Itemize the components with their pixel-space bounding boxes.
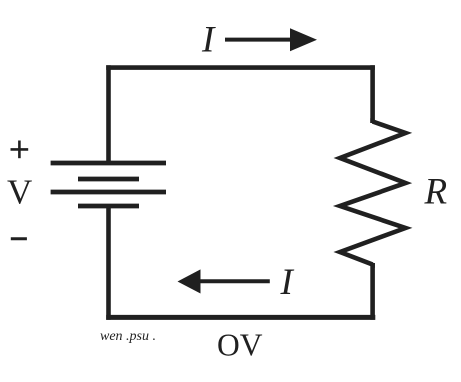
svg-text:V: V — [7, 173, 32, 212]
wire right upper — [370, 65, 375, 123]
label plus — [11, 141, 29, 159]
battery plate short upper — [78, 177, 139, 182]
wire top — [106, 65, 375, 70]
battery plate long lower — [51, 190, 166, 195]
wire left upper — [106, 65, 111, 163]
svg-text:wen .psu .: wen .psu . — [100, 329, 156, 344]
label minus — [11, 237, 27, 240]
current arrow bottom — [178, 269, 270, 293]
svg-text:OV: OV — [217, 327, 263, 362]
current arrow top — [225, 28, 317, 51]
resistor R zigzag — [340, 122, 406, 265]
svg-text:I: I — [280, 262, 295, 303]
svg-text:R: R — [424, 171, 448, 212]
svg-text:I: I — [201, 20, 216, 61]
wire left lower — [106, 206, 111, 320]
battery plate short bottom — [78, 204, 139, 209]
battery plate long top — [51, 161, 166, 166]
wire right lower — [370, 263, 375, 320]
wire bottom — [106, 315, 375, 320]
battery V — [51, 163, 166, 206]
